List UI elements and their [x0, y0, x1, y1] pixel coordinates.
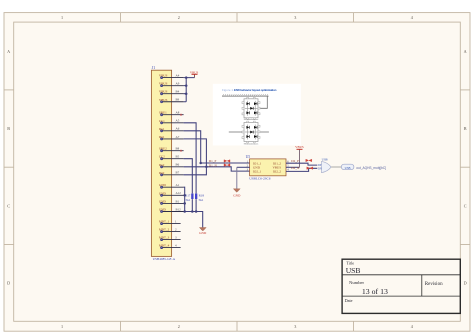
svg-text:C: C: [7, 203, 10, 208]
svg-text:C: C: [464, 203, 467, 208]
figure diagram cell 2: [244, 123, 258, 142]
differential pair marker (D2_N): [307, 167, 313, 170]
svg-text:VBUS: VBUS: [159, 74, 168, 78]
pin B7 (Dn2): [159, 171, 184, 176]
svg-text:GND: GND: [159, 208, 167, 212]
svg-text:2: 2: [178, 324, 180, 329]
svg-text:A9: A9: [176, 82, 180, 86]
wire Dp1/Dp2 (D1_P): [184, 131, 250, 164]
pin A12 (GND): [159, 191, 184, 196]
svg-text:VBUS: VBUS: [190, 71, 199, 75]
no-ERC marker: [180, 150, 182, 152]
no-ERC marker: [180, 114, 182, 116]
svg-text:5k1: 5k1: [199, 198, 204, 202]
svg-text:CC2: CC2: [159, 155, 165, 159]
svg-text:B12: B12: [176, 207, 182, 211]
port USB: [341, 164, 354, 170]
svg-text:USB4085-GF-A: USB4085-GF-A: [153, 257, 176, 261]
pin A6 (Dp1): [159, 127, 184, 132]
svg-text:GND: GND: [159, 199, 167, 203]
pin A7 (Dn1): [159, 135, 184, 140]
svg-text:Title: Title: [346, 261, 354, 266]
differential pair marker (D1_N): [224, 164, 230, 167]
svg-text:VBUS: VBUS: [295, 145, 304, 149]
pin 2 (MNT_2): [159, 228, 181, 233]
svg-text:out_AQHS_mobj[bC]: out_AQHS_mobj[bC]: [356, 166, 386, 170]
wire U5 VBUS pin: [286, 166, 300, 168]
svg-text:IO2_1: IO2_1: [253, 170, 262, 174]
wire U5 GND pin to ground: [237, 166, 250, 168]
svg-text:Revision: Revision: [425, 282, 443, 287]
svg-text:SBU2: SBU2: [159, 147, 167, 151]
svg-text:IO2_2: IO2_2: [273, 170, 282, 174]
resistor R17 (5k1): [185, 194, 193, 202]
power port VBUS (connector side): [190, 71, 199, 78]
svg-text:MNT_3: MNT_3: [159, 236, 170, 240]
svg-text:Dn1: Dn1: [159, 135, 165, 139]
differential pair marker (D1_P): [224, 160, 230, 163]
wire CC2 to R17: [184, 159, 193, 212]
pin B1 (GND): [159, 199, 184, 204]
IC U5 USBLC6-2SC6: [246, 155, 286, 180]
svg-text:B5: B5: [176, 155, 180, 159]
svg-text:B7: B7: [176, 171, 180, 175]
svg-text:B9: B9: [176, 98, 180, 102]
pin B8 (SBU2): [159, 147, 184, 152]
svg-text:3: 3: [294, 324, 296, 329]
pin B5 (CC2): [159, 155, 184, 160]
svg-text:B8: B8: [176, 147, 180, 151]
harness wire: [331, 166, 341, 168]
wire D2_P to harness: [286, 163, 317, 165]
pin A4 (VBUS): [159, 74, 184, 79]
svg-text:2: 2: [178, 15, 180, 20]
svg-text:A4: A4: [176, 74, 180, 78]
pin A1 (GND): [159, 183, 184, 188]
svg-text:ESD behavior layout optimizati: ESD behavior layout optimization: [234, 88, 277, 92]
svg-text:Number: Number: [349, 280, 365, 285]
U5 pin 1 (IO1_1): [247, 161, 262, 166]
svg-text:Dp1: Dp1: [159, 127, 165, 131]
svg-text:Date: Date: [345, 298, 353, 303]
svg-text:Dn2: Dn2: [159, 171, 165, 175]
pin B4 (VBUS): [159, 90, 184, 95]
svg-text:A6: A6: [176, 127, 180, 131]
svg-text:GND: GND: [159, 191, 167, 195]
svg-text:B4: B4: [176, 90, 180, 94]
resistor R18 (5k1): [195, 194, 204, 202]
pin B9 (VBUS): [159, 98, 184, 103]
svg-text:U5: U5: [246, 155, 251, 159]
harness connector USB: [318, 158, 332, 173]
svg-text:GND: GND: [233, 193, 241, 197]
pin A8 (SBU1): [159, 111, 184, 116]
svg-text:Dp2: Dp2: [159, 163, 165, 167]
svg-text:A7: A7: [176, 135, 180, 139]
svg-text:A: A: [7, 49, 10, 54]
svg-text:B1: B1: [176, 199, 180, 203]
svg-text:1: 1: [61, 15, 63, 20]
power port VBUS (U5 side): [295, 145, 304, 149]
svg-text:VBUS: VBUS: [159, 98, 168, 102]
svg-text:A1: A1: [176, 183, 180, 187]
svg-text:MNT_2: MNT_2: [159, 228, 170, 232]
svg-text:MNT_1: MNT_1: [159, 220, 170, 224]
svg-text:USBLC6-2SC6: USBLC6-2SC6: [249, 177, 271, 181]
title block: [342, 259, 460, 313]
svg-text:GND: GND: [159, 183, 167, 187]
svg-text:B: B: [464, 126, 467, 131]
pin B6 (Dp2): [159, 163, 184, 168]
ground symbol (U5): [233, 189, 241, 198]
svg-text:A: A: [464, 49, 467, 54]
pin 3 (MNT_3): [159, 236, 181, 241]
svg-text:MNT_4: MNT_4: [159, 244, 170, 248]
U5 pin 5 (VBUS): [272, 165, 289, 170]
wire D2_N to harness: [286, 168, 317, 171]
differential pair marker (D2_P): [306, 159, 312, 162]
wire GND bus: [183, 187, 202, 227]
svg-text:USB: USB: [346, 266, 361, 275]
svg-text:J1: J1: [152, 66, 155, 70]
pin 4 (MNT_4): [159, 244, 181, 249]
ground symbol (connector): [199, 228, 207, 235]
wire VBUS rail: [184, 76, 195, 101]
U5 pin 3 (IO2_1): [247, 169, 262, 174]
svg-text:ESD device close to conn: ESD device close to conn: [244, 118, 259, 121]
pin 1 (MNT_1): [159, 220, 181, 225]
U5 pin 4 (IO2_2): [273, 169, 289, 174]
U5 pin 6 (IO1_2): [273, 161, 289, 166]
svg-text:VBUS: VBUS: [159, 90, 168, 94]
wire Dn1/Dn2 (D1_N): [184, 139, 250, 175]
svg-text:A5: A5: [176, 119, 180, 123]
svg-text:1: 1: [61, 324, 63, 329]
svg-text:VBUS: VBUS: [159, 82, 168, 86]
svg-text:SBU1: SBU1: [159, 111, 167, 115]
svg-text:CC1: CC1: [159, 119, 165, 123]
svg-text:B6: B6: [176, 163, 180, 167]
svg-text:D1_N: D1_N: [209, 163, 218, 167]
svg-text:Figure 1.: Figure 1.: [222, 88, 234, 92]
svg-text:A8: A8: [176, 111, 180, 115]
svg-text:5k1: 5k1: [186, 198, 191, 202]
svg-text:3: 3: [294, 15, 296, 20]
U5 pin 2 (GND): [247, 165, 261, 170]
wire CC1 to R18: [184, 123, 197, 212]
svg-text:USB: USB: [345, 166, 351, 170]
svg-text:A12: A12: [176, 191, 182, 195]
figure diagram cell 1: [244, 99, 258, 118]
figure: ESD layout optimization illustration: [213, 84, 301, 146]
svg-text:13 of 13: 13 of 13: [362, 287, 388, 296]
svg-text:D2_P: D2_P: [291, 159, 299, 163]
pin A9 (VBUS): [159, 82, 184, 87]
pin B12 (GND): [159, 207, 184, 212]
svg-text:D: D: [7, 281, 10, 286]
pin A5 (CC1): [159, 119, 184, 124]
svg-text:GND: GND: [199, 231, 207, 235]
svg-text:ESD device close to conn: ESD device close to conn: [244, 143, 259, 146]
svg-text:D2_N: D2_N: [291, 166, 300, 170]
svg-text:USB: USB: [322, 158, 328, 162]
svg-text:B: B: [7, 126, 10, 131]
svg-text:D: D: [464, 281, 467, 286]
connector J1 USB4085-GF-A: [151, 66, 175, 261]
